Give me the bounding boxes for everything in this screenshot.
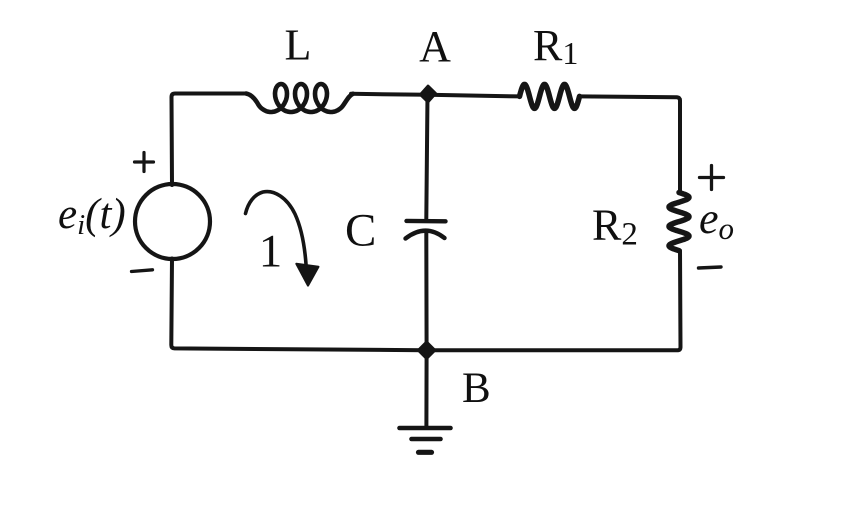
svg-text:eo: eo	[699, 194, 734, 246]
ground symbol	[400, 426, 451, 431]
node A junction dot	[420, 86, 436, 102]
node B junction dot	[418, 342, 435, 359]
wire from voltage source + terminal up and right to inductor L	[172, 94, 247, 186]
wire from node A to resistor R1	[428, 95, 520, 97]
svg-text:C: C	[345, 205, 376, 257]
svg-text:ei(t): ei(t)	[58, 191, 126, 241]
wire from capacitor C down to node B	[424, 233, 428, 350]
resistor R1	[520, 84, 580, 108]
inductor L	[246, 84, 353, 112]
resistor R2	[669, 193, 689, 251]
svg-text:R2: R2	[592, 201, 638, 253]
svg-text:1: 1	[259, 226, 283, 278]
wire from e_i(t) - terminal down to bottom-left corner and right to node B	[171, 259, 425, 351]
svg-text:R1: R1	[533, 21, 578, 71]
voltage source + sign	[135, 153, 154, 172]
output - sign for e_o	[699, 267, 722, 268]
voltage source e_i(t) circle	[135, 184, 210, 259]
svg-text:A: A	[419, 22, 451, 71]
wire from R2 down to bottom-right corner and left to node B	[428, 251, 681, 351]
capacitor C bottom plate (curved)	[406, 231, 445, 239]
wire from R1 to top-right corner down to resistor R2	[580, 96, 681, 192]
ground stem wire below node B	[424, 350, 428, 426]
output + sign for e_o	[700, 166, 724, 190]
loop current arrow (mesh 1)	[246, 192, 307, 264]
svg-text:B: B	[462, 365, 491, 412]
wire from node A down to capacitor C	[426, 95, 427, 219]
voltage source - sign	[132, 270, 153, 272]
svg-text:L: L	[285, 21, 312, 70]
wire from inductor L to node A	[351, 94, 428, 95]
capacitor C top plate	[407, 219, 446, 224]
